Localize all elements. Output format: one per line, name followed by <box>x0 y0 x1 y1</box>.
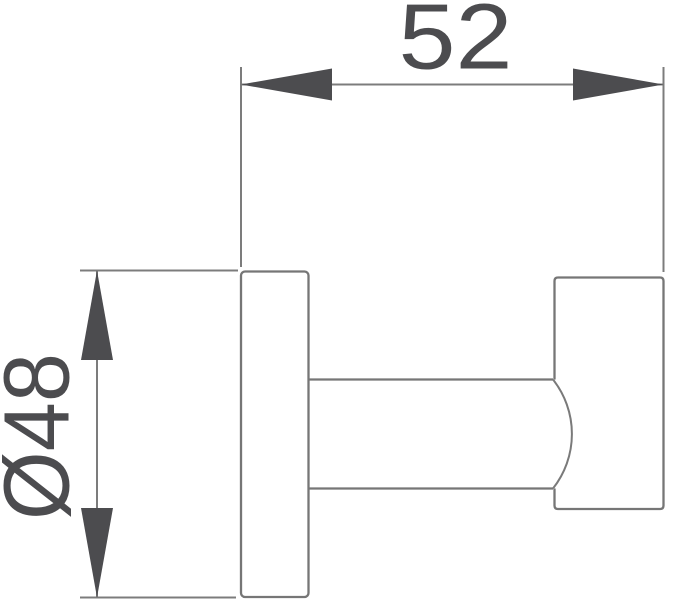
extension line top (left dimension) <box>80 270 238 272</box>
wall plate (side view) <box>241 272 309 598</box>
left dimension line <box>96 271 98 598</box>
top dimension right arrowhead <box>573 69 664 101</box>
stem end arc (rounded face of knob) <box>553 380 572 489</box>
top dimension left arrowhead <box>241 69 332 101</box>
left dimension bottom arrowhead <box>81 508 113 598</box>
stem top line <box>309 378 554 380</box>
extension line right (top dimension) <box>663 67 665 272</box>
top dimension line <box>241 84 664 86</box>
svg-text:Ø48: Ø48 <box>0 353 89 520</box>
left dimension top arrowhead <box>81 271 113 361</box>
knob end cap outline (left edge interrupted by stem) <box>555 278 664 510</box>
svg-text:52: 52 <box>399 0 513 89</box>
extension line left (top dimension) <box>240 67 242 267</box>
stem bottom line <box>309 487 554 489</box>
extension line bottom (left dimension) <box>80 597 236 599</box>
